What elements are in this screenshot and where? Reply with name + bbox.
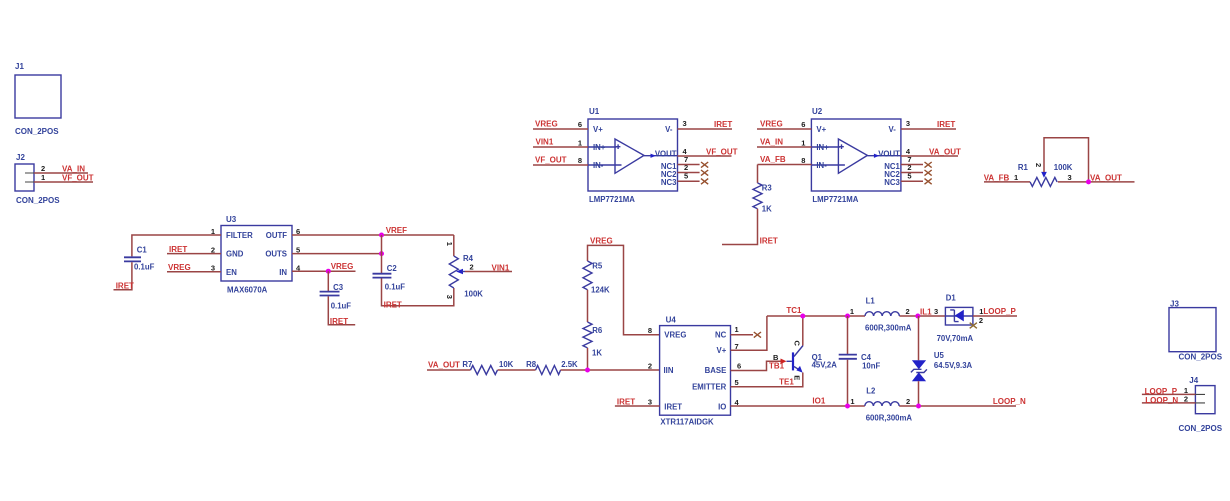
no-connect X D1 pin2: [970, 323, 977, 329]
wire C3 lower: [328, 296, 355, 324]
svg-text:CON_2POS: CON_2POS: [16, 196, 60, 205]
wire U3 OUTF to VREF rail: [292, 234, 454, 236]
svg-text:100K: 100K: [1054, 163, 1073, 172]
svg-text:VA_OUT: VA_OUT: [428, 361, 460, 370]
svg-text:U2: U2: [812, 107, 823, 116]
svg-text:1K: 1K: [592, 348, 602, 357]
svg-text:VREF: VREF: [386, 226, 407, 235]
svg-text:V+: V+: [717, 346, 727, 355]
svg-text:VF_OUT: VF_OUT: [706, 147, 738, 156]
svg-text:6: 6: [737, 361, 741, 370]
svg-text:IN+: IN+: [593, 143, 606, 152]
svg-text:VF_OUT: VF_OUT: [535, 156, 567, 165]
svg-text:BASE: BASE: [705, 366, 727, 375]
wire R1 wiper loop: [1044, 138, 1089, 182]
TVS U5: [911, 316, 973, 406]
no-connect X U1 NC3: [701, 179, 708, 185]
svg-text:1: 1: [801, 138, 805, 147]
svg-text:IRET: IRET: [169, 245, 187, 254]
wire C1 lower: [114, 262, 132, 289]
node TC1/U5 junction: [915, 314, 920, 319]
svg-text:2.5K: 2.5K: [561, 360, 578, 369]
svg-text:IRET: IRET: [116, 281, 134, 290]
svg-text:45V,2A: 45V,2A: [812, 361, 838, 370]
svg-text:GND: GND: [226, 250, 244, 259]
svg-text:8: 8: [578, 156, 582, 165]
wire U1 IN-: [533, 164, 588, 166]
svg-text:IRET: IRET: [617, 397, 635, 406]
op-amp U1: [578, 107, 688, 204]
svg-text:1: 1: [735, 325, 739, 334]
svg-text:NC: NC: [715, 331, 727, 340]
wire U2 NC2 stub: [901, 172, 923, 174]
capacitor C3: [320, 271, 352, 310]
svg-text:R6: R6: [592, 326, 603, 335]
op-amp U2: [801, 107, 911, 204]
svg-text:R7: R7: [462, 360, 472, 369]
svg-text:IO: IO: [718, 402, 726, 411]
svg-text:IL1: IL1: [920, 308, 932, 317]
svg-text:VA_FB: VA_FB: [760, 155, 786, 164]
wire U1 IN+: [533, 146, 588, 148]
svg-text:IN-: IN-: [816, 161, 827, 170]
node TC1/Q1 junction: [800, 314, 805, 319]
inductor L1: [850, 297, 912, 333]
svg-text:VA_IN: VA_IN: [62, 165, 85, 174]
svg-text:CON_2POS: CON_2POS: [1179, 424, 1223, 433]
svg-text:VOUT: VOUT: [655, 150, 677, 159]
svg-text:CON_2POS: CON_2POS: [1179, 353, 1223, 362]
node VREF junction: [379, 233, 384, 238]
node IO1/U5 junction: [916, 404, 921, 409]
wire U4 V+ to TC1 rail: [731, 316, 767, 350]
svg-text:U4: U4: [666, 315, 677, 324]
svg-text:0.1uF: 0.1uF: [331, 301, 352, 310]
svg-text:LMP7721MA: LMP7721MA: [812, 195, 858, 204]
svg-text:IRET: IRET: [714, 120, 732, 129]
resistor R5: [583, 261, 610, 294]
svg-text:3: 3: [906, 119, 910, 128]
svg-text:64.5V,9.3A: 64.5V,9.3A: [934, 361, 973, 370]
wire U4 IO rail: [731, 405, 1017, 407]
wire U2 V+: [757, 128, 811, 130]
svg-text:100K: 100K: [464, 290, 483, 299]
capacitor C2: [373, 264, 406, 292]
svg-text:V+: V+: [816, 125, 826, 134]
svg-text:VA_IN: VA_IN: [760, 138, 783, 147]
wire U1 VOUT: [678, 155, 732, 157]
svg-text:0.1uF: 0.1uF: [385, 282, 406, 291]
wire Q1 collector to TC1: [802, 316, 804, 346]
svg-text:E: E: [793, 375, 802, 380]
svg-text:VREG: VREG: [168, 263, 191, 272]
wire U2 V-: [901, 128, 956, 130]
svg-text:LMP7721MA: LMP7721MA: [589, 195, 635, 204]
svg-text:VREG: VREG: [331, 262, 354, 271]
svg-text:IRET: IRET: [664, 402, 682, 411]
svg-text:FILTER: FILTER: [226, 231, 253, 240]
svg-text:L1: L1: [866, 297, 876, 306]
svg-text:VF_OUT: VF_OUT: [62, 174, 94, 183]
wire U1 NC1 stub: [678, 164, 700, 166]
net label pin8 number handled above; wire IRET stub U4 pin3: [615, 405, 660, 407]
svg-text:VA_OUT: VA_OUT: [1090, 174, 1122, 183]
wire U2 VOUT: [901, 155, 958, 157]
no-connect X U1 NC2: [701, 170, 708, 176]
svg-text:VREG: VREG: [590, 236, 613, 245]
svg-text:3: 3: [445, 295, 454, 299]
wire R8 to U4 IIN: [561, 369, 660, 371]
wire VREF down to C2: [381, 235, 383, 273]
svg-text:VIN1: VIN1: [492, 263, 510, 272]
svg-text:VA_OUT: VA_OUT: [929, 147, 961, 156]
capacitor C1: [124, 245, 155, 271]
wire R6 down to IIN rail: [587, 348, 589, 370]
no-connect X U2 NC1: [925, 162, 932, 168]
svg-text:IN+: IN+: [816, 143, 829, 152]
svg-text:J2: J2: [16, 153, 25, 162]
svg-text:2: 2: [1184, 394, 1188, 403]
wire R5 to R6: [587, 290, 589, 322]
resistor R6: [583, 322, 603, 357]
no-connect X U4 NC: [754, 332, 761, 338]
svg-text:C2: C2: [387, 264, 398, 273]
node IIN junction: [585, 368, 590, 373]
svg-text:3: 3: [683, 119, 687, 128]
wire U4 BASE: [731, 361, 782, 370]
svg-text:IRET: IRET: [384, 300, 402, 309]
voltage reference U3: [211, 215, 301, 295]
no-connect X U1 NC1: [701, 162, 708, 168]
wire R7 to R8: [498, 369, 536, 371]
wire U4 EMITTER: [731, 373, 803, 387]
svg-text:OUTF: OUTF: [266, 231, 287, 240]
svg-text:MAX6070A: MAX6070A: [227, 286, 268, 295]
svg-text:R5: R5: [592, 261, 603, 270]
no-connect X U2 NC2: [925, 170, 932, 176]
resistor R8: [526, 360, 578, 375]
svg-text:B: B: [773, 353, 779, 362]
svg-text:3: 3: [648, 397, 652, 406]
svg-text:LOOP_N: LOOP_N: [1145, 396, 1178, 405]
wire U1 V-: [678, 128, 733, 130]
svg-text:VIN1: VIN1: [536, 138, 554, 147]
wire R3 to IRET: [722, 209, 758, 245]
svg-text:U5: U5: [934, 351, 945, 360]
wire U2 IN+: [757, 146, 811, 148]
svg-text:124K: 124K: [591, 285, 610, 294]
diode D1: [937, 293, 974, 343]
capacitor C4: [839, 316, 881, 371]
svg-text:1: 1: [850, 307, 854, 316]
svg-text:LOOP_N: LOOP_N: [993, 397, 1026, 406]
potentiometer R4: [445, 235, 483, 299]
node VREG junction: [326, 269, 331, 274]
wire J2 pin1: [34, 181, 93, 183]
svg-text:OUTS: OUTS: [265, 250, 287, 259]
svg-text:J1: J1: [15, 62, 24, 71]
node TC1/C4 junction: [845, 314, 850, 319]
svg-text:D1: D1: [946, 293, 957, 302]
svg-text:10K: 10K: [499, 360, 514, 369]
svg-text:VREG: VREG: [535, 120, 558, 129]
svg-text:IRET: IRET: [937, 120, 955, 129]
transistor Q1: [769, 341, 837, 387]
svg-text:5: 5: [735, 378, 739, 387]
svg-text:2: 2: [906, 397, 910, 406]
svg-text:2: 2: [979, 316, 983, 325]
svg-text:600R,300mA: 600R,300mA: [866, 413, 913, 422]
wire U3 pin2: [167, 253, 221, 255]
svg-text:R3: R3: [762, 183, 773, 192]
svg-text:IO1: IO1: [812, 397, 825, 406]
svg-text:EMITTER: EMITTER: [692, 382, 727, 391]
svg-text:1: 1: [578, 138, 582, 147]
connector J3: [1169, 300, 1223, 362]
svg-text:0.1uF: 0.1uF: [134, 262, 155, 271]
svg-text:TC1: TC1: [786, 306, 802, 315]
svg-text:8: 8: [648, 326, 652, 335]
svg-text:EN: EN: [226, 268, 237, 277]
svg-text:R1: R1: [1018, 163, 1029, 172]
svg-text:NC3: NC3: [661, 178, 677, 187]
svg-text:VREG: VREG: [760, 120, 783, 129]
svg-text:1: 1: [850, 397, 854, 406]
svg-text:U1: U1: [589, 107, 600, 116]
connector J1: [15, 62, 61, 136]
svg-text:LOOP_P: LOOP_P: [983, 307, 1016, 316]
svg-text:1: 1: [1014, 173, 1018, 182]
svg-text:1K: 1K: [762, 204, 772, 213]
wire R4 wiper VIN1: [465, 271, 512, 273]
svg-text:C1: C1: [137, 245, 148, 254]
potentiometer R1: [1018, 163, 1073, 187]
svg-text:V+: V+: [593, 125, 603, 134]
wire VA_OUT to R7: [427, 369, 471, 371]
svg-text:IIN: IIN: [664, 366, 674, 375]
wire U2 NC1 stub: [901, 164, 923, 166]
node R1 pin3 junction: [1086, 179, 1091, 184]
wire J4 pin2: [1142, 402, 1196, 404]
wire U3 pin3: [167, 271, 221, 273]
svg-text:1: 1: [41, 173, 45, 182]
svg-text:L2: L2: [866, 386, 876, 395]
svg-text:600R,300mA: 600R,300mA: [865, 323, 912, 332]
svg-text:J4: J4: [1189, 376, 1198, 385]
wire VREG top rail: [588, 245, 660, 334]
svg-text:V-: V-: [665, 125, 673, 134]
wire VA_FB to R1: [984, 181, 1030, 183]
svg-text:3: 3: [1068, 173, 1072, 182]
svg-text:IRET: IRET: [760, 236, 778, 245]
svg-text:R8: R8: [526, 360, 537, 369]
svg-text:U3: U3: [226, 215, 237, 224]
current transmitter U4: [648, 315, 741, 426]
svg-text:C: C: [793, 341, 802, 347]
svg-text:TE1: TE1: [779, 377, 794, 386]
svg-text:2: 2: [906, 307, 910, 316]
svg-text:IN-: IN-: [593, 161, 604, 170]
svg-text:VOUT: VOUT: [878, 150, 900, 159]
svg-text:V-: V-: [889, 125, 897, 134]
svg-text:NC3: NC3: [884, 178, 900, 187]
resistor R7: [462, 360, 513, 375]
svg-text:XTR117AIDGK: XTR117AIDGK: [660, 417, 714, 426]
svg-text:2: 2: [470, 262, 474, 271]
svg-text:10nF: 10nF: [862, 362, 880, 371]
wire D1 pin1 LOOP_P: [973, 315, 1017, 317]
svg-text:CON_2POS: CON_2POS: [15, 127, 59, 136]
svg-text:6: 6: [801, 120, 805, 129]
svg-text:TB1: TB1: [769, 362, 785, 371]
node OUTS junction: [379, 251, 384, 256]
connector J4: [1179, 376, 1223, 433]
inductor L2: [850, 386, 912, 422]
svg-text:LOOP_P: LOOP_P: [1145, 387, 1178, 396]
wire R1 to VA_OUT: [1058, 181, 1135, 183]
svg-text:IRET: IRET: [330, 317, 348, 326]
node IO1/C4 junction: [845, 404, 850, 409]
wire U2 IN- / VA_FB: [758, 164, 812, 166]
svg-text:VREG: VREG: [664, 331, 686, 340]
connector J2: [15, 153, 60, 205]
svg-text:2: 2: [41, 164, 45, 173]
svg-text:2: 2: [1034, 163, 1043, 167]
svg-text:IN: IN: [279, 268, 287, 277]
wire TC1 rail: [767, 315, 946, 317]
wire U3 IN (pin4): [292, 270, 356, 272]
wire U4 NC stub: [731, 334, 754, 336]
svg-text:70V,70mA: 70V,70mA: [937, 334, 974, 343]
wire U3 OUTS: [292, 253, 382, 255]
resistor R3: [753, 165, 772, 214]
wire U1 NC2 stub: [678, 172, 700, 174]
wire U2 NC3 stub: [901, 180, 923, 182]
wire U3 pin1 to C1: [132, 235, 221, 256]
wire J4 pin1: [1142, 393, 1196, 395]
wire U1 V+: [533, 128, 588, 130]
wire U1 NC3 stub: [678, 180, 700, 182]
wire C4 lower: [847, 360, 849, 406]
svg-text:1: 1: [445, 242, 454, 246]
wire J2 pin2: [34, 172, 88, 174]
svg-text:3: 3: [934, 307, 938, 316]
wire C2 lower to R4 pin3: [382, 278, 454, 305]
svg-text:C3: C3: [333, 283, 344, 292]
svg-text:2: 2: [648, 361, 652, 370]
svg-text:6: 6: [578, 120, 582, 129]
no-connect X U2 NC3: [925, 179, 932, 185]
